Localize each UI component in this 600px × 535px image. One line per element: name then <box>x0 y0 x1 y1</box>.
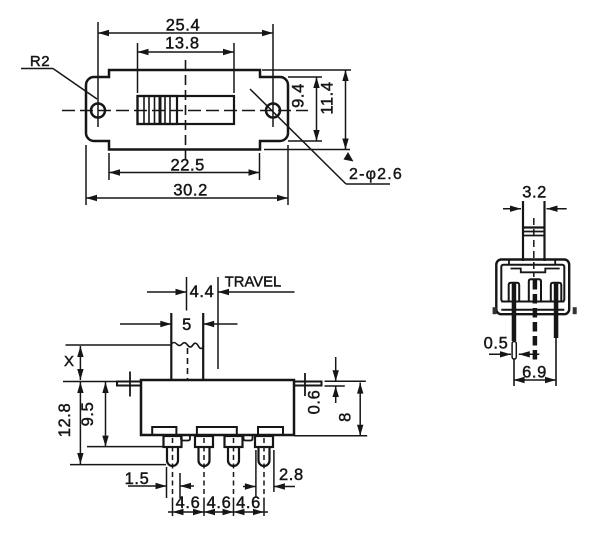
top view: horizontal dashed centerline <box>62 110 308 112</box>
dimension 9.4 extension lines <box>288 76 322 78</box>
svg-text:5: 5 <box>182 316 192 334</box>
side view: left foot tab <box>493 307 497 314</box>
front view: pin 3 collar <box>225 436 243 447</box>
side view: middle terminal channel <box>529 279 541 301</box>
front view: pin 1 dashed centerline <box>172 438 174 500</box>
front view: knob break wavy line <box>171 343 203 349</box>
svg-text:X: X <box>64 353 74 370</box>
side view: right foot tab <box>573 307 577 314</box>
front view: pin 4 collar <box>255 436 273 447</box>
top view: slider slot <box>138 96 235 124</box>
dimension X extension line at knob top <box>66 344 172 346</box>
front view: pin 2 dashed centerline <box>203 438 205 500</box>
side view: left pin lower blade outline <box>512 342 516 360</box>
dimension 9.5 vertical <box>105 382 107 447</box>
side view: base plate line <box>501 301 564 303</box>
front view: actuator knob sides <box>170 313 172 380</box>
svg-text:2.8: 2.8 <box>279 466 304 484</box>
front view: pin 2 collar <box>195 436 213 447</box>
dimension 4.4 travel extension line left <box>186 277 188 311</box>
label 2-phi2.6 hole size with leader through right hole <box>250 89 346 184</box>
side view: left terminal pin <box>512 283 517 341</box>
front view: switch body <box>141 380 294 435</box>
dimension X extension line at body top <box>63 381 141 383</box>
side view: left terminal channel <box>509 283 520 302</box>
front view: terminal seat block 3 <box>258 427 283 435</box>
dimension 25.4 extension lines through hole centers <box>97 22 99 127</box>
side view: left pin extension wire <box>513 359 515 386</box>
dimension 22.5 extension lines <box>108 153 110 180</box>
front view: terminal seat block 1 <box>152 427 176 435</box>
dimension 8 bottom extension line <box>294 435 367 437</box>
dimension 5 knob width <box>120 323 171 325</box>
front view: pin 4 centerline extension to pitch dimension <box>263 500 265 516</box>
side view: knob slot step <box>511 269 560 273</box>
svg-text:9.4: 9.4 <box>290 83 308 108</box>
side view: base lower line <box>501 309 564 311</box>
svg-text:3.2: 3.2 <box>522 184 547 202</box>
side view: right terminal channel <box>551 283 562 302</box>
top view: slider knob hatched <box>138 96 178 124</box>
dimension 30.2 extension lines <box>85 145 87 205</box>
dimension 0.6 extension lines <box>325 380 366 382</box>
dimension 2.8 arrows <box>243 486 256 488</box>
front view: pin 1 stem with rounded tip <box>167 447 178 466</box>
svg-text:0.6: 0.6 <box>306 390 324 415</box>
dimension 13.8 extension lines <box>137 43 139 93</box>
top view: switch cover plate outline with mounting ears <box>86 70 288 150</box>
front view: pin 3 centerline extension to pitch dimension <box>233 500 235 516</box>
dimension 11.4 vertical <box>345 70 347 150</box>
dimension 25.4 <box>98 32 273 34</box>
svg-text:1.5: 1.5 <box>125 470 150 488</box>
front view: pin 2 centerline extension to pitch dimension <box>203 500 205 516</box>
dimension 9.5 bottom extension line <box>87 446 163 448</box>
front view: molded bump between pins 3-4 <box>244 435 253 441</box>
side view: right terminal pin <box>554 283 559 338</box>
side view: cover slot edges <box>508 260 510 265</box>
svg-text:R2: R2 <box>30 53 50 70</box>
svg-text:22.5: 22.5 <box>170 157 205 175</box>
dimension 0.6 arrows <box>335 357 337 381</box>
svg-text:9.5: 9.5 <box>79 402 97 427</box>
dimension 6.9 pin span <box>514 379 556 381</box>
front view: right tab centerline cross <box>304 373 306 396</box>
dimension 4.4 travel <box>147 291 187 293</box>
front view: pin 1 collar <box>164 436 182 447</box>
front view: terminal seat block 2 <box>197 427 237 435</box>
svg-text:8: 8 <box>336 412 354 422</box>
front view: right mounting tab <box>294 382 322 386</box>
front view: molded bump between pins 1-2 <box>181 435 190 441</box>
dimension 3.2 knob width <box>503 208 521 210</box>
dimension 1.5 arrows <box>128 485 167 487</box>
dimension 30.2 <box>86 197 288 199</box>
svg-text:4.6: 4.6 <box>176 494 201 512</box>
top view: right mounting hole <box>266 104 280 118</box>
dimension X vertical <box>79 346 81 380</box>
dimension 4.4 travel extension line right / body centerline <box>217 277 219 369</box>
side view: right pin extension wire <box>555 338 557 386</box>
side view: body outer case <box>496 260 569 315</box>
svg-text:4.6: 4.6 <box>207 494 232 512</box>
dimension 8 vertical <box>359 383 361 436</box>
front view: pin 3 dashed centerline <box>233 438 235 500</box>
svg-text:12.8: 12.8 <box>56 403 74 438</box>
svg-text:30.2: 30.2 <box>173 182 208 200</box>
side view: body inner wall <box>501 265 564 302</box>
dimension 1.5 extension lines <box>166 467 168 498</box>
dimension 12.8 vertical <box>79 382 81 464</box>
dimension 12.8 bottom extension line <box>70 464 166 466</box>
front view: knob dashed centerline <box>187 348 189 380</box>
front view: pin 4 dashed centerline <box>263 438 265 500</box>
side view: middle terminal pin hidden dashed <box>533 280 538 362</box>
svg-text:2-φ2.6: 2-φ2.6 <box>349 166 403 183</box>
dimension 22.5 <box>109 172 260 174</box>
svg-text:4.6: 4.6 <box>236 494 261 512</box>
top view: left mounting hole <box>91 104 105 118</box>
front view: pin 1 centerline extension to pitch dimension <box>172 500 174 516</box>
svg-text:13.8: 13.8 <box>165 35 200 53</box>
svg-text:0.5: 0.5 <box>484 335 509 353</box>
dimension 13.8 <box>138 51 235 53</box>
top view: vertical dashed centerline <box>185 60 187 160</box>
svg-text:4.4: 4.4 <box>190 283 215 301</box>
side view: vertical dashed centerline <box>533 218 535 277</box>
front view: left tab centerline cross <box>129 372 131 397</box>
dimension 9.4 vertical <box>316 77 318 141</box>
dimension 4.6 pin pitch line <box>168 511 268 513</box>
front view: pin 3 stem with rounded tip <box>228 447 239 466</box>
svg-text:6.9: 6.9 <box>522 364 547 382</box>
side view: knob <box>522 201 524 261</box>
svg-text:11.4: 11.4 <box>319 81 337 114</box>
front view: pin 4 stem with rounded tip <box>259 447 270 466</box>
dimension 11.4 extension lines <box>262 69 351 71</box>
svg-text:25.4: 25.4 <box>166 17 201 35</box>
svg-text:TRAVEL: TRAVEL <box>225 275 281 291</box>
dimension 2.8 extension lines <box>255 450 257 497</box>
dimension 0.5 pin thickness <box>489 353 511 355</box>
front view: left mounting tab <box>117 382 141 386</box>
front view: pin 2 stem with rounded tip <box>199 447 210 466</box>
